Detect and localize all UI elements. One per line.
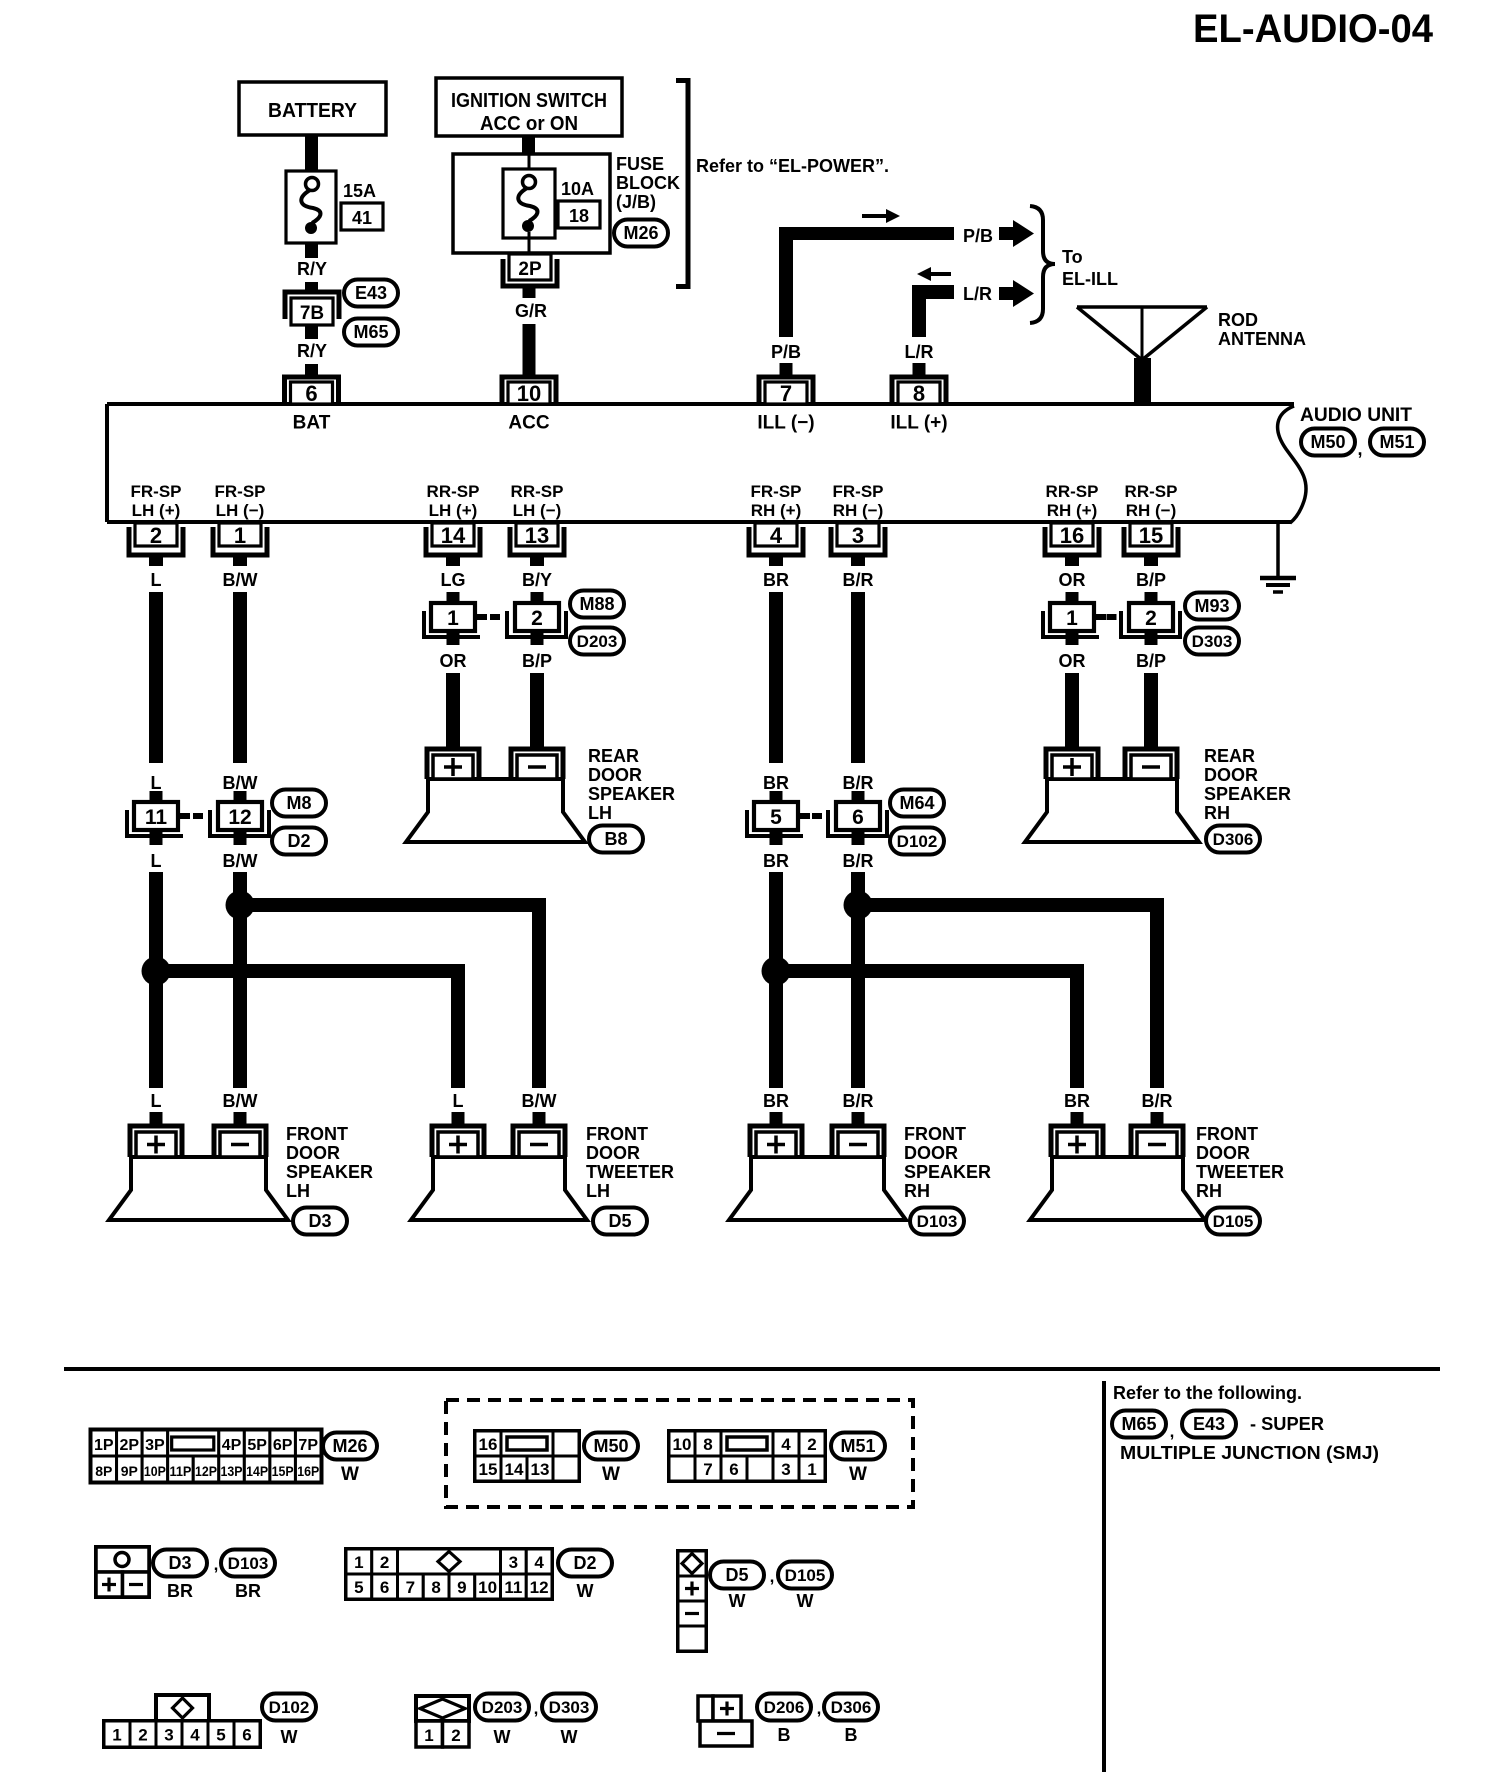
svg-text:4: 4 bbox=[770, 523, 783, 548]
svg-text:E43: E43 bbox=[355, 283, 387, 303]
svg-text:D203: D203 bbox=[577, 632, 618, 651]
svg-text:B/W: B/W bbox=[223, 570, 258, 590]
svg-text:10: 10 bbox=[478, 1578, 497, 1597]
svg-text:6: 6 bbox=[242, 1726, 251, 1745]
svg-text:W: W bbox=[281, 1727, 298, 1747]
connector label D2 (legend) bbox=[558, 1550, 612, 1602]
svg-text:B/P: B/P bbox=[1136, 651, 1166, 671]
svg-text:14: 14 bbox=[505, 1460, 524, 1479]
arrow on P/B wire bbox=[862, 209, 900, 223]
connector face D102 bbox=[104, 1695, 260, 1747]
svg-text:B/W: B/W bbox=[223, 851, 258, 871]
connector face D203/D303 bbox=[416, 1696, 469, 1747]
branch wire BR to tweeter RH bbox=[776, 971, 1077, 1088]
svg-text:41: 41 bbox=[352, 208, 372, 228]
svg-text:B/R: B/R bbox=[843, 570, 874, 590]
connector label D5 bbox=[593, 1208, 647, 1235]
audio unit pin 4 FR-SP RH (+) bbox=[749, 482, 803, 590]
svg-text:LG: LG bbox=[441, 570, 466, 590]
svg-text:B/P: B/P bbox=[1136, 570, 1166, 590]
wire B/R to speaker terminal bbox=[843, 1091, 874, 1127]
svg-text:D3: D3 bbox=[168, 1553, 191, 1573]
comma bbox=[214, 1555, 219, 1574]
svg-text:M93: M93 bbox=[1194, 596, 1229, 616]
label REAR DOOR SPEAKER LH bbox=[588, 746, 675, 823]
dashed box SMJ connectors bbox=[446, 1400, 913, 1507]
audio unit pin 16 RR-SP RH (+) bbox=[1045, 482, 1099, 590]
branch wire B/W to tweeter LH bbox=[240, 905, 539, 1088]
svg-text:6: 6 bbox=[380, 1578, 389, 1597]
svg-text:1: 1 bbox=[234, 523, 246, 548]
svg-text:L: L bbox=[151, 773, 162, 793]
connector label E43 bbox=[344, 280, 398, 307]
connector label D206 (legend) bbox=[757, 1694, 811, 1746]
arrow on L/R wire bbox=[917, 267, 951, 281]
svg-text:13: 13 bbox=[525, 523, 549, 548]
ground bbox=[1260, 523, 1296, 592]
connector label M65 (SMJ note) bbox=[1112, 1411, 1166, 1438]
wire R/Y SMJ to pin 6 bbox=[297, 325, 327, 377]
svg-text:BR: BR bbox=[235, 1581, 261, 1601]
svg-text:M50: M50 bbox=[593, 1436, 628, 1456]
svg-text:7: 7 bbox=[780, 381, 792, 406]
svg-text:,: , bbox=[1170, 1422, 1175, 1441]
svg-text:8P: 8P bbox=[95, 1463, 112, 1479]
svg-text:1: 1 bbox=[354, 1553, 363, 1572]
svg-text:SPEAKER: SPEAKER bbox=[904, 1162, 991, 1182]
svg-text:FRONT: FRONT bbox=[1196, 1124, 1258, 1144]
connector face D3/D103 bbox=[96, 1547, 149, 1597]
audio unit pin 3 FR-SP RH (−) bbox=[831, 482, 885, 590]
svg-text:RH: RH bbox=[1204, 803, 1230, 823]
svg-text:,: , bbox=[770, 1567, 775, 1586]
svg-text:G/R: G/R bbox=[515, 301, 547, 321]
svg-text:B/R: B/R bbox=[843, 851, 874, 871]
svg-text:18: 18 bbox=[569, 206, 589, 226]
connector label M26 bbox=[614, 220, 668, 247]
svg-text:6: 6 bbox=[305, 381, 317, 406]
svg-text:FUSE: FUSE bbox=[616, 154, 664, 174]
svg-text:AUDIO UNIT: AUDIO UNIT bbox=[1300, 405, 1412, 426]
wire BR to speaker terminal bbox=[763, 1091, 789, 1127]
junction L bbox=[142, 957, 171, 986]
svg-text:,: , bbox=[817, 1699, 822, 1718]
svg-text:6: 6 bbox=[729, 1460, 738, 1479]
rear door speaker RH bbox=[1025, 749, 1199, 842]
svg-text:RH (−): RH (−) bbox=[1126, 501, 1177, 520]
connector label D2 bbox=[272, 828, 326, 855]
svg-text:1P: 1P bbox=[94, 1437, 114, 1454]
svg-text:RH (−): RH (−) bbox=[833, 501, 884, 520]
svg-text:L: L bbox=[151, 1091, 162, 1111]
svg-text:BR: BR bbox=[763, 851, 789, 871]
wire BR to speaker terminal bbox=[1064, 1091, 1090, 1127]
svg-text:D102: D102 bbox=[897, 832, 938, 851]
wire B/P to rear speaker LH bbox=[522, 631, 552, 750]
connector face M51 bbox=[669, 1431, 825, 1481]
svg-text:Refer to the following.: Refer to the following. bbox=[1113, 1383, 1302, 1403]
svg-text:EL-AUDIO-04: EL-AUDIO-04 bbox=[1193, 7, 1434, 51]
connector label D3 bbox=[293, 1208, 347, 1235]
svg-text:D306: D306 bbox=[831, 1698, 872, 1717]
svg-text:REAR: REAR bbox=[588, 746, 639, 766]
svg-text:M64: M64 bbox=[899, 793, 934, 813]
svg-text:SPEAKER: SPEAKER bbox=[286, 1162, 373, 1182]
connector 2P bbox=[503, 254, 557, 286]
svg-text:TWEETER: TWEETER bbox=[1196, 1162, 1284, 1182]
svg-text:1: 1 bbox=[447, 607, 459, 630]
audio unit pin 7 ILL (−) bbox=[757, 377, 814, 434]
svg-text:D5: D5 bbox=[725, 1565, 748, 1585]
svg-text:M65: M65 bbox=[353, 322, 388, 342]
svg-text:,: , bbox=[1357, 439, 1362, 459]
svg-text:ILL (+): ILL (+) bbox=[890, 413, 947, 434]
svg-text:RH (+): RH (+) bbox=[1047, 501, 1098, 520]
svg-text:6: 6 bbox=[852, 806, 864, 829]
svg-text:FR-SP: FR-SP bbox=[131, 482, 182, 501]
svg-text:OR: OR bbox=[1059, 651, 1086, 671]
svg-text:D306: D306 bbox=[1213, 830, 1254, 849]
svg-text:,: , bbox=[214, 1555, 219, 1574]
connector label E43 (SMJ note) bbox=[1182, 1411, 1236, 1438]
fuse 10A 18 bbox=[503, 169, 555, 254]
comma bbox=[534, 1699, 539, 1718]
note SUPER MULTIPLE JUNCTION (SMJ) bbox=[1120, 1414, 1379, 1463]
svg-text:L: L bbox=[151, 851, 162, 871]
svg-text:D2: D2 bbox=[287, 831, 310, 851]
connector face D5/D105 bbox=[678, 1551, 706, 1651]
label To EL-ILL bbox=[1062, 247, 1118, 289]
svg-text:ANTENNA: ANTENNA bbox=[1218, 329, 1306, 349]
svg-text:11P: 11P bbox=[169, 1463, 191, 1479]
wire L/R pin 8 to EL-ILL bbox=[905, 285, 955, 377]
svg-text:B/W: B/W bbox=[223, 1091, 258, 1111]
svg-text:P/B: P/B bbox=[771, 342, 801, 362]
connector label M93 bbox=[1185, 593, 1239, 620]
svg-text:7P: 7P bbox=[298, 1437, 318, 1454]
connector pair M64/D102 pins 5-6 bbox=[747, 802, 887, 836]
svg-text:M51: M51 bbox=[840, 1436, 875, 1456]
wire BR below connector 5 bbox=[763, 830, 789, 1088]
audio unit pin 2 FR-SP LH (+) bbox=[129, 482, 183, 590]
svg-text:D103: D103 bbox=[917, 1212, 958, 1231]
svg-text:FR-SP: FR-SP bbox=[215, 482, 266, 501]
wire OR to rear speaker LH bbox=[440, 631, 467, 750]
svg-text:RH (+): RH (+) bbox=[751, 501, 802, 520]
svg-text:D3: D3 bbox=[308, 1211, 331, 1231]
connector face D206/D306 bbox=[698, 1696, 752, 1746]
label ROD ANTENNA bbox=[1218, 310, 1306, 349]
junction BR bbox=[762, 957, 791, 986]
svg-text:2P: 2P bbox=[120, 1437, 140, 1454]
svg-text:D2: D2 bbox=[573, 1553, 596, 1573]
label P/B at EL-ILL bbox=[963, 226, 993, 246]
svg-text:REAR: REAR bbox=[1204, 746, 1255, 766]
connector face D2 bbox=[346, 1549, 552, 1599]
svg-text:BLOCK: BLOCK bbox=[616, 173, 680, 193]
svg-text:15P: 15P bbox=[272, 1463, 294, 1479]
svg-text:,: , bbox=[534, 1699, 539, 1718]
svg-text:1: 1 bbox=[112, 1726, 121, 1745]
svg-text:SPEAKER: SPEAKER bbox=[1204, 784, 1291, 804]
svg-text:3: 3 bbox=[852, 523, 864, 548]
separator line bbox=[64, 1367, 1440, 1371]
connector label D303 bbox=[1185, 628, 1239, 655]
connector label D105 bbox=[1206, 1208, 1260, 1235]
svg-text:RR-SP: RR-SP bbox=[511, 482, 564, 501]
svg-text:FR-SP: FR-SP bbox=[833, 482, 884, 501]
svg-text:DOOR: DOOR bbox=[586, 1143, 640, 1163]
svg-text:W: W bbox=[341, 1464, 359, 1485]
svg-text:BAT: BAT bbox=[293, 413, 331, 434]
svg-text:W: W bbox=[849, 1464, 867, 1485]
svg-text:P/B: P/B bbox=[963, 226, 993, 246]
svg-text:M26: M26 bbox=[623, 223, 658, 243]
connector label M51 bbox=[1370, 429, 1424, 456]
svg-text:LH: LH bbox=[586, 1181, 610, 1201]
svg-text:14P: 14P bbox=[246, 1463, 268, 1479]
connector label D203 bbox=[570, 628, 624, 655]
svg-text:M65: M65 bbox=[1121, 1414, 1156, 1434]
wire OR to rear speaker RH bbox=[1059, 631, 1086, 750]
wire LG pin 14 to connector bbox=[447, 592, 460, 603]
arrow to EL-ILL (P/B) bbox=[999, 220, 1034, 247]
svg-text:W: W bbox=[494, 1727, 511, 1747]
label AUDIO UNIT bbox=[1300, 405, 1412, 426]
svg-text:- SUPER: - SUPER bbox=[1250, 1414, 1324, 1434]
svg-text:10A: 10A bbox=[561, 179, 594, 199]
svg-text:12P: 12P bbox=[195, 1463, 217, 1479]
svg-text:3P: 3P bbox=[145, 1437, 165, 1454]
svg-text:R/Y: R/Y bbox=[297, 341, 327, 361]
svg-text:B/P: B/P bbox=[522, 651, 552, 671]
svg-text:BR: BR bbox=[1064, 1091, 1090, 1111]
svg-text:3: 3 bbox=[509, 1553, 518, 1572]
wire OR pin 16 to connector bbox=[1066, 592, 1079, 603]
wire L to speaker terminal bbox=[150, 1091, 163, 1127]
wire B/W pin 1 down bbox=[223, 592, 258, 802]
svg-text:TWEETER: TWEETER bbox=[586, 1162, 674, 1182]
audio unit pin 1 FR-SP LH (−) bbox=[213, 482, 267, 590]
svg-text:Refer to “EL-POWER”.: Refer to “EL-POWER”. bbox=[696, 156, 889, 176]
svg-text:ACC: ACC bbox=[508, 413, 549, 434]
connector label M8 bbox=[272, 790, 326, 817]
front door tweeter RH bbox=[1030, 1126, 1205, 1220]
svg-text:1: 1 bbox=[807, 1460, 816, 1479]
connector label B8 bbox=[589, 826, 643, 853]
svg-text:LH (+): LH (+) bbox=[132, 501, 181, 520]
svg-text:14: 14 bbox=[441, 523, 466, 548]
fuse number 18 bbox=[558, 201, 600, 228]
svg-text:SPEAKER: SPEAKER bbox=[588, 784, 675, 804]
svg-text:FRONT: FRONT bbox=[586, 1124, 648, 1144]
fuse number 41 bbox=[341, 203, 383, 230]
svg-text:L/R: L/R bbox=[905, 342, 934, 362]
svg-text:L: L bbox=[151, 570, 162, 590]
battery bbox=[239, 82, 386, 135]
svg-text:5: 5 bbox=[216, 1726, 225, 1745]
svg-text:DOOR: DOOR bbox=[1196, 1143, 1250, 1163]
svg-text:BR: BR bbox=[167, 1581, 193, 1601]
svg-text:LH (−): LH (−) bbox=[513, 501, 562, 520]
ignition switch bbox=[436, 78, 622, 136]
audio unit pin 8 ILL (+) bbox=[890, 377, 947, 434]
label FRONT DOOR TWEETER LH bbox=[586, 1124, 674, 1201]
svg-text:FRONT: FRONT bbox=[904, 1124, 966, 1144]
junction B/R bbox=[844, 891, 873, 920]
wire B/R below connector 6 bbox=[843, 830, 874, 1088]
wire R/Y fuse to SMJ 7B bbox=[297, 243, 327, 293]
SMJ connector 7B bbox=[285, 292, 339, 325]
svg-text:W: W bbox=[729, 1591, 746, 1611]
connector label M88 bbox=[570, 591, 624, 618]
svg-text:8: 8 bbox=[913, 381, 925, 406]
branch wire L to tweeter LH bbox=[156, 971, 458, 1088]
connector label M26 (legend) bbox=[323, 1433, 377, 1486]
label L/R at EL-ILL bbox=[963, 284, 992, 304]
svg-text:2: 2 bbox=[138, 1726, 147, 1745]
label FRONT DOOR SPEAKER LH bbox=[286, 1124, 373, 1201]
connector pair M93/D303 pins 1-2 bbox=[1043, 603, 1180, 637]
svg-text:B/R: B/R bbox=[843, 1091, 874, 1111]
svg-text:7: 7 bbox=[703, 1460, 712, 1479]
note Refer to EL-POWER bbox=[696, 156, 889, 176]
label REAR DOOR SPEAKER RH bbox=[1204, 746, 1291, 823]
wire L pin 2 down bbox=[149, 592, 163, 802]
connector face M26 bbox=[91, 1430, 321, 1482]
svg-text:15: 15 bbox=[479, 1460, 498, 1479]
svg-text:R/Y: R/Y bbox=[297, 259, 327, 279]
svg-text:10: 10 bbox=[517, 381, 541, 406]
svg-text:D103: D103 bbox=[228, 1554, 269, 1573]
svg-text:3: 3 bbox=[781, 1460, 790, 1479]
svg-text:L: L bbox=[453, 1091, 464, 1111]
svg-text:12: 12 bbox=[530, 1578, 549, 1597]
front door speaker RH bbox=[729, 1126, 906, 1220]
rear door speaker LH bbox=[406, 749, 585, 842]
svg-text:D203: D203 bbox=[482, 1698, 523, 1717]
svg-text:2: 2 bbox=[531, 607, 543, 630]
comma bbox=[1357, 439, 1362, 459]
svg-text:RH: RH bbox=[1196, 1181, 1222, 1201]
fuse block J/B box bbox=[453, 154, 610, 253]
svg-text:B/Y: B/Y bbox=[522, 570, 552, 590]
comma bbox=[770, 1567, 775, 1586]
connector label D306 bbox=[1206, 826, 1260, 853]
svg-text:D5: D5 bbox=[608, 1211, 631, 1231]
connector label D5 (legend) bbox=[710, 1562, 764, 1612]
connector label D103 (legend) bbox=[221, 1550, 275, 1602]
svg-text:To: To bbox=[1062, 247, 1083, 267]
svg-text:12: 12 bbox=[228, 806, 251, 829]
svg-text:D303: D303 bbox=[1192, 632, 1233, 651]
audio unit pin 6 BAT bbox=[285, 377, 339, 434]
svg-text:MULTIPLE JUNCTION (SMJ): MULTIPLE JUNCTION (SMJ) bbox=[1120, 1443, 1379, 1463]
svg-text:LH: LH bbox=[286, 1181, 310, 1201]
svg-text:B/R: B/R bbox=[843, 773, 874, 793]
branch wire B/R to tweeter RH bbox=[858, 905, 1157, 1088]
wire B/P pin 15 to connector bbox=[1145, 592, 1158, 603]
wire B/P to rear speaker RH bbox=[1136, 631, 1166, 750]
svg-text:2: 2 bbox=[807, 1435, 816, 1454]
svg-text:LH (+): LH (+) bbox=[429, 501, 478, 520]
arrow to EL-ILL (L/R) bbox=[999, 280, 1034, 307]
svg-text:8: 8 bbox=[431, 1578, 440, 1597]
svg-text:ACC or ON: ACC or ON bbox=[480, 113, 578, 135]
audio unit pin 13 RR-SP LH (−) bbox=[510, 482, 564, 590]
svg-text:M26: M26 bbox=[332, 1436, 367, 1456]
svg-text:EL-ILL: EL-ILL bbox=[1062, 269, 1118, 289]
svg-text:FR-SP: FR-SP bbox=[751, 482, 802, 501]
front door tweeter LH bbox=[411, 1126, 587, 1220]
svg-text:RR-SP: RR-SP bbox=[1125, 482, 1178, 501]
svg-text:B/R: B/R bbox=[1142, 1091, 1173, 1111]
label FUSE BLOCK (J/B) bbox=[616, 154, 680, 212]
svg-text:7B: 7B bbox=[300, 303, 324, 324]
connector label D306 (legend) bbox=[824, 1694, 878, 1746]
svg-text:DOOR: DOOR bbox=[1204, 765, 1258, 785]
fuse 15A 41 bbox=[286, 171, 336, 243]
connector label D103 bbox=[910, 1208, 964, 1235]
svg-text:DOOR: DOOR bbox=[286, 1143, 340, 1163]
svg-text:2P: 2P bbox=[518, 259, 542, 280]
svg-text:11: 11 bbox=[145, 806, 168, 829]
svg-text:4: 4 bbox=[781, 1435, 791, 1454]
svg-text:D206: D206 bbox=[764, 1698, 805, 1717]
connector label D3 (legend) bbox=[153, 1550, 207, 1602]
bracket refer to EL-POWER bbox=[676, 81, 688, 287]
svg-text:D105: D105 bbox=[785, 1566, 826, 1585]
svg-text:LH: LH bbox=[588, 803, 612, 823]
connector label D102 bbox=[890, 828, 944, 855]
svg-text:LH (−): LH (−) bbox=[216, 501, 265, 520]
comma bbox=[817, 1699, 822, 1718]
svg-text:4P: 4P bbox=[222, 1437, 242, 1454]
svg-text:BATTERY: BATTERY bbox=[268, 100, 358, 122]
svg-text:10P: 10P bbox=[144, 1463, 166, 1479]
svg-text:IGNITION SWITCH: IGNITION SWITCH bbox=[451, 90, 607, 112]
wire B/W to speaker terminal bbox=[223, 1091, 258, 1127]
wire B/Y pin 13 to connector bbox=[531, 592, 544, 603]
svg-text:15A: 15A bbox=[343, 181, 376, 201]
svg-text:RR-SP: RR-SP bbox=[1046, 482, 1099, 501]
fuse rating 10A bbox=[561, 179, 594, 199]
svg-text:13: 13 bbox=[531, 1460, 550, 1479]
connector pair M88/D203 pins 1-2 bbox=[424, 603, 566, 637]
svg-text:16: 16 bbox=[479, 1435, 498, 1454]
svg-text:B: B bbox=[778, 1725, 791, 1745]
svg-text:5P: 5P bbox=[247, 1437, 267, 1454]
svg-text:BR: BR bbox=[763, 773, 789, 793]
svg-text:W: W bbox=[602, 1464, 620, 1485]
svg-text:ROD: ROD bbox=[1218, 310, 1258, 330]
svg-text:FRONT: FRONT bbox=[286, 1124, 348, 1144]
connector label M50 bbox=[1301, 429, 1355, 456]
wire BR pin 4 down bbox=[763, 592, 789, 802]
legend divider bbox=[1102, 1381, 1106, 1772]
wire B/W to speaker terminal bbox=[522, 1091, 557, 1127]
fuse rating 15A bbox=[343, 181, 376, 201]
svg-text:2: 2 bbox=[380, 1553, 389, 1572]
svg-text:2: 2 bbox=[451, 1726, 460, 1745]
svg-text:7: 7 bbox=[406, 1578, 415, 1597]
wire G/R 2P to pin 10 bbox=[515, 286, 547, 377]
connector pair M8/D2 pins 11-12 bbox=[127, 802, 269, 836]
svg-text:4: 4 bbox=[534, 1553, 544, 1572]
svg-text:RH: RH bbox=[904, 1181, 930, 1201]
connector label D105 (legend) bbox=[778, 1562, 832, 1612]
connector face M50 bbox=[475, 1431, 579, 1481]
